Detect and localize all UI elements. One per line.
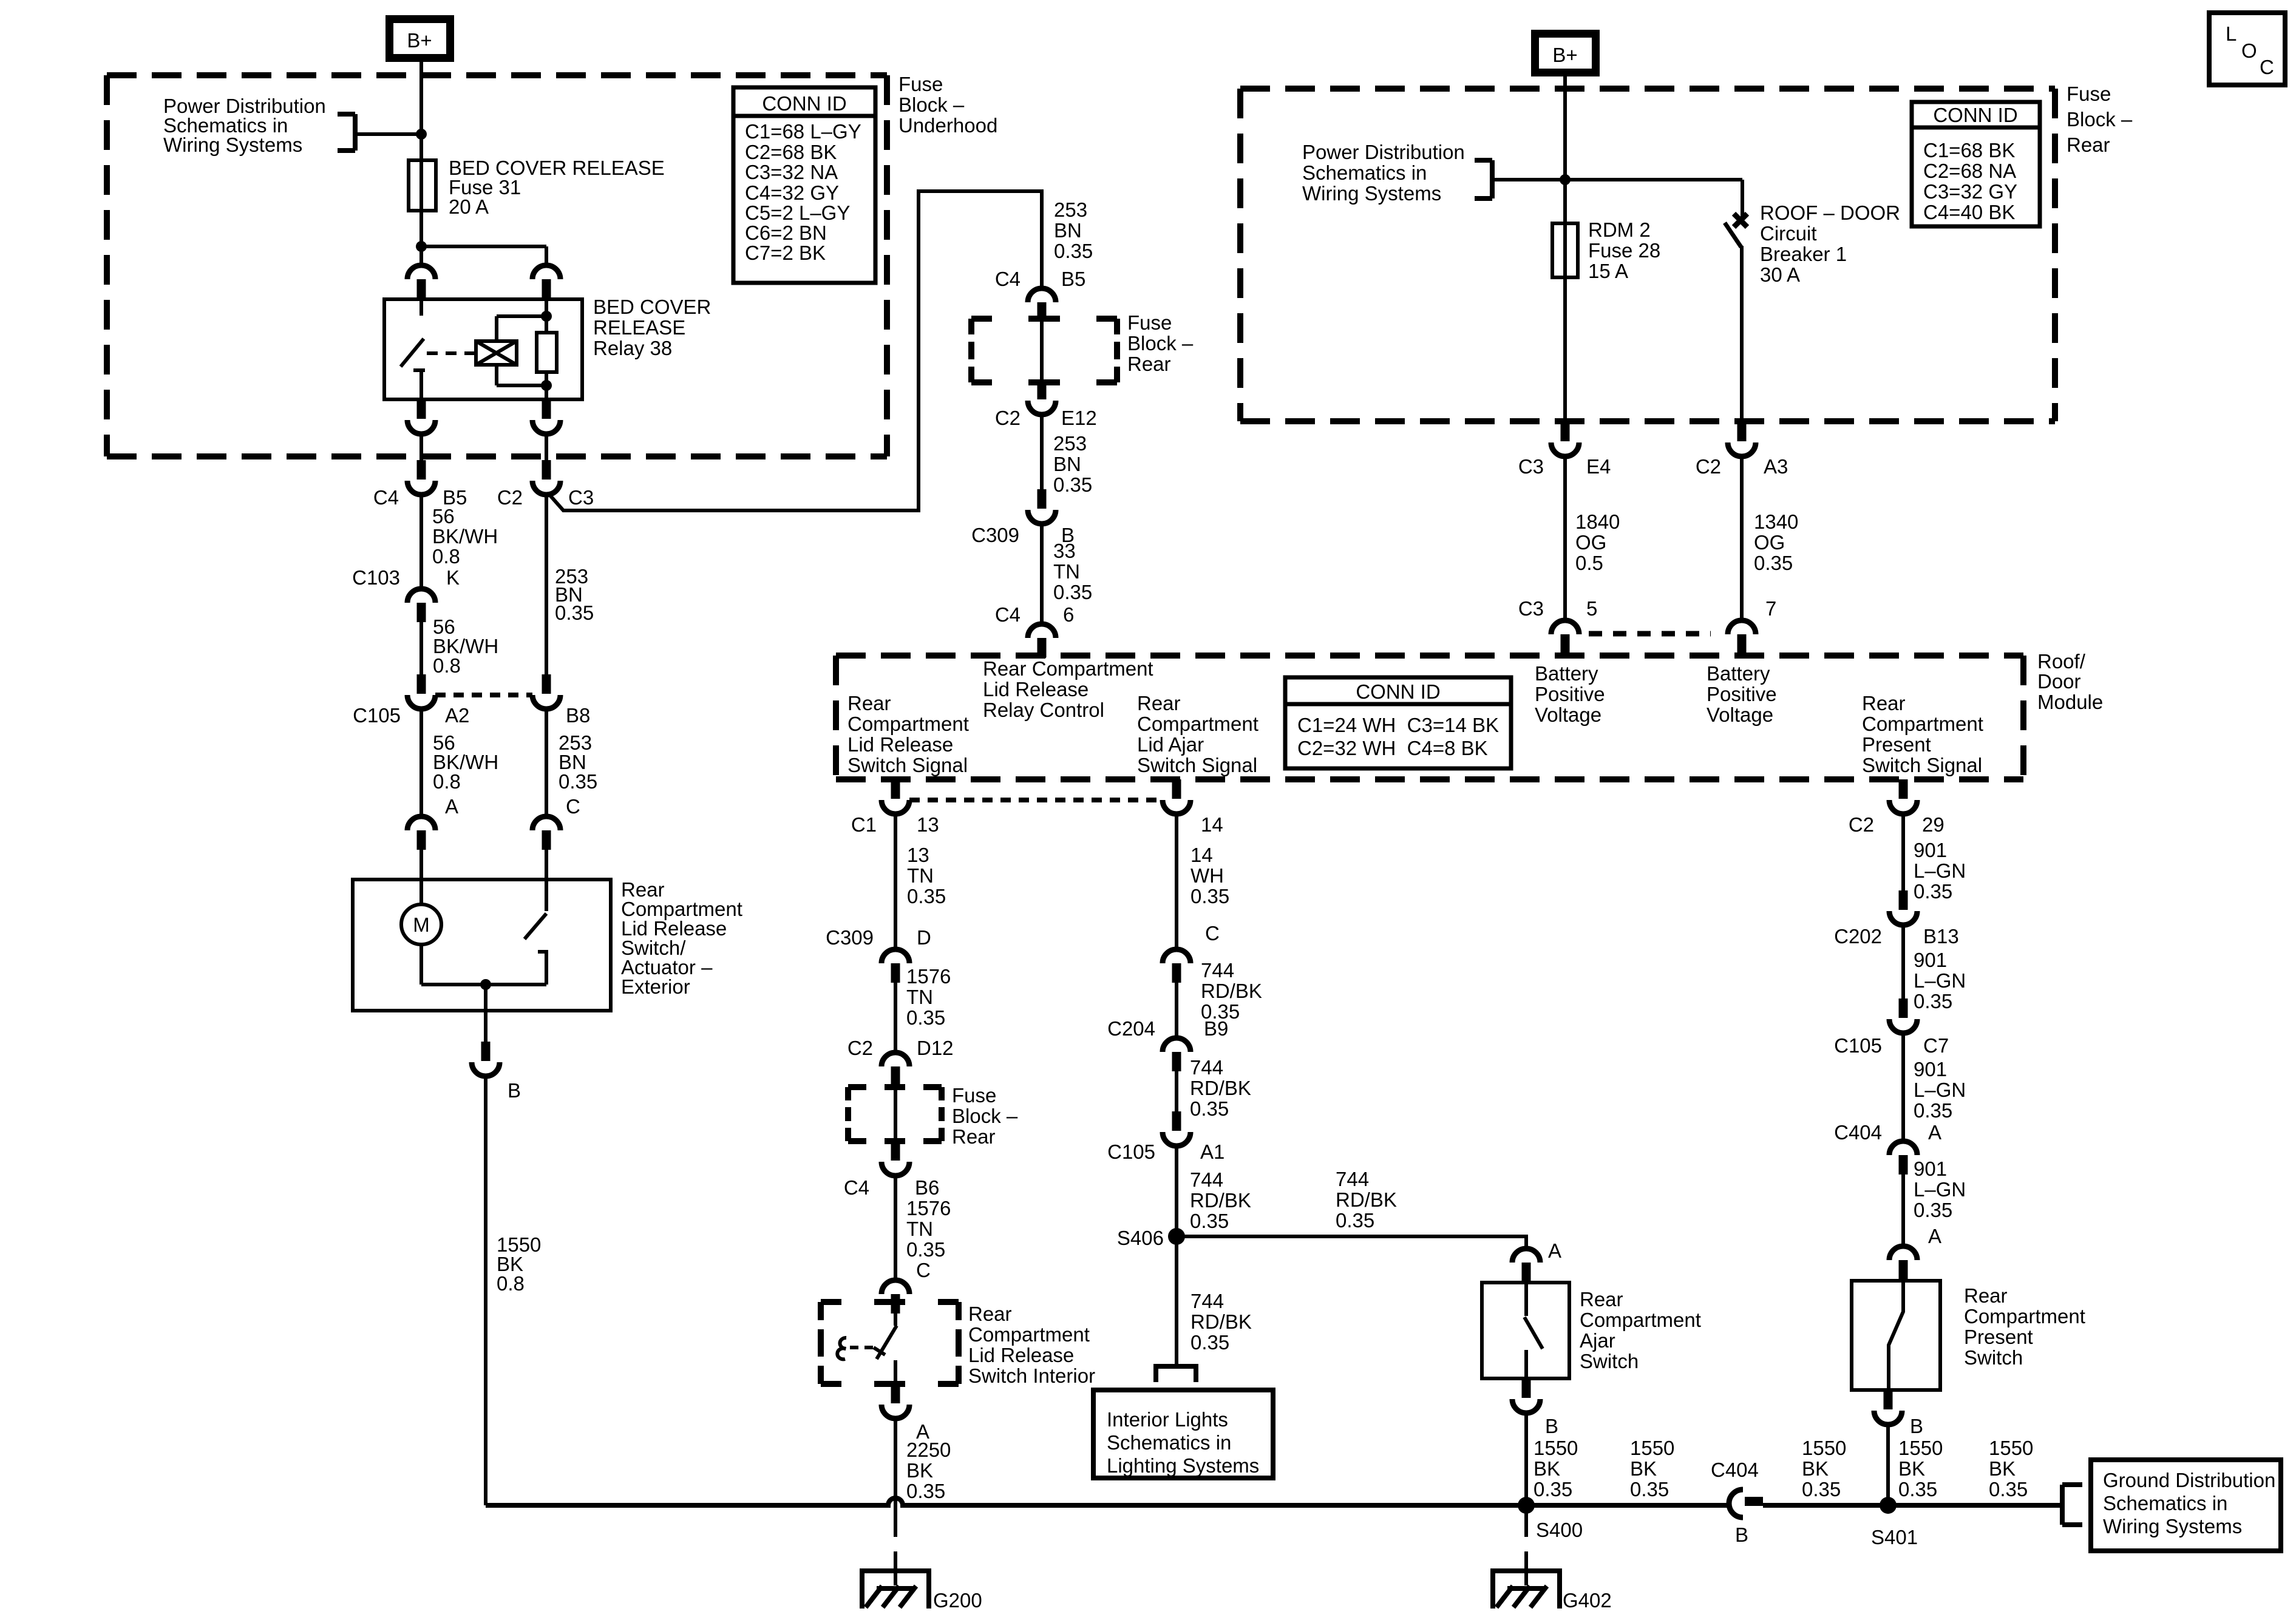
- fuse block rear dashed box (lower): [848, 1087, 942, 1141]
- svg-text:1550: 1550: [1533, 1437, 1578, 1459]
- wire junction to relay right leg: [421, 245, 546, 248]
- svg-text:BK: BK: [1898, 1457, 1925, 1480]
- svg-text:C2: C2: [1696, 455, 1721, 478]
- svg-text:B8: B8: [566, 704, 590, 727]
- svg-text:1550: 1550: [1630, 1437, 1674, 1459]
- connector C4 pin B5: [407, 460, 435, 495]
- svg-text:CONN ID: CONN ID: [1933, 104, 2017, 126]
- connector interior switch pin C: [881, 1280, 909, 1314]
- svg-text:Battery: Battery: [1707, 662, 1770, 685]
- svg-text:1550: 1550: [1898, 1437, 1943, 1459]
- svg-text:Battery: Battery: [1535, 662, 1598, 685]
- motor M circle: [419, 880, 423, 904]
- wire 1550 BK 0.8 to ground bus: [484, 1076, 487, 1505]
- connector C204 pin B9: [1163, 1038, 1190, 1071]
- svg-text:1576: 1576: [906, 965, 951, 988]
- connector C105 pin A2: [407, 674, 435, 709]
- connector C404 pin B (inline on bus): [1729, 1490, 1763, 1517]
- svg-text:A: A: [1548, 1239, 1561, 1262]
- svg-text:B5: B5: [1061, 268, 1085, 290]
- wire S406 down to interior lights: [1175, 1236, 1178, 1366]
- svg-text:0.35: 0.35: [906, 1238, 945, 1261]
- wire ajar switch to S400: [1524, 1413, 1528, 1505]
- svg-text:Circuit: Circuit: [1760, 222, 1817, 245]
- svg-text:B13: B13: [1923, 925, 1959, 947]
- svg-text:WH: WH: [1190, 864, 1224, 887]
- svg-text:0.35: 0.35: [1914, 990, 1952, 1012]
- svg-text:B9: B9: [1204, 1017, 1228, 1040]
- svg-text:BN: BN: [1053, 453, 1081, 475]
- svg-text:Positive: Positive: [1707, 683, 1777, 705]
- svg-text:Rear: Rear: [1862, 692, 1906, 714]
- svg-text:BN: BN: [1054, 219, 1082, 242]
- svg-text:TN: TN: [906, 1218, 933, 1240]
- svg-text:C4: C4: [844, 1176, 869, 1199]
- svg-text:0.5: 0.5: [1575, 552, 1603, 574]
- wire 33 TN to module: [1040, 524, 1044, 624]
- svg-text:E12: E12: [1061, 407, 1097, 429]
- wire 13 TN: [894, 814, 897, 949]
- svg-text:C3=32 NA: C3=32 NA: [745, 161, 838, 183]
- svg-text:Lid Release: Lid Release: [983, 678, 1089, 700]
- svg-text:Relay 38: Relay 38: [593, 337, 672, 359]
- svg-text:C1: C1: [851, 813, 877, 836]
- svg-text:ROOF – DOOR: ROOF – DOOR: [1760, 202, 1900, 224]
- svg-text:Voltage: Voltage: [1535, 703, 1601, 726]
- svg-text:6: 6: [1063, 603, 1074, 626]
- svg-text:B: B: [1910, 1415, 1923, 1437]
- svg-text:S401: S401: [1871, 1526, 1918, 1548]
- blade extension into module: [1737, 649, 1746, 658]
- svg-text:Lid Release: Lid Release: [968, 1344, 1074, 1366]
- connector C2 pin 7 (roof/door module): [1728, 620, 1756, 654]
- svg-text:TN: TN: [907, 864, 934, 887]
- svg-text:744: 744: [1336, 1168, 1369, 1190]
- wire inside fuse block rear lower: [894, 1086, 897, 1141]
- connector ajar switch pin B: [1512, 1378, 1540, 1413]
- svg-text:0.35: 0.35: [1914, 1199, 1952, 1221]
- svg-text:RD/BK: RD/BK: [1190, 1310, 1252, 1333]
- rear compartment lid release switch interior dashed box: [821, 1302, 959, 1384]
- actuator internal wires: [419, 944, 423, 985]
- connector actuator pin C: [532, 816, 560, 850]
- ground distribution schematics box: [2091, 1460, 2281, 1551]
- node relay coil top junction: [541, 311, 552, 322]
- svg-text:A3: A3: [1764, 455, 1788, 478]
- svg-text:C3: C3: [1518, 455, 1544, 478]
- svg-text:A1: A1: [1200, 1141, 1224, 1163]
- connector C309 pin D: [881, 949, 909, 983]
- svg-text:0.35: 0.35: [1989, 1478, 2028, 1500]
- svg-text:0.35: 0.35: [907, 885, 946, 907]
- svg-text:Schematics in: Schematics in: [2103, 1492, 2227, 1514]
- svg-text:29: 29: [1922, 813, 1944, 836]
- svg-text:901: 901: [1914, 949, 1947, 971]
- CONN ID table (fuse block rear): [1912, 102, 2040, 226]
- svg-text:Schematics in: Schematics in: [1302, 161, 1427, 184]
- svg-text:744: 744: [1190, 1168, 1223, 1191]
- svg-text:G402: G402: [1563, 1589, 1612, 1612]
- svg-text:Fuse: Fuse: [1127, 311, 1172, 334]
- interior lights schematics box: [1093, 1390, 1273, 1478]
- svg-text:744: 744: [1201, 959, 1234, 981]
- svg-text:C6=2 BN: C6=2 BN: [745, 222, 827, 244]
- connector relay pin 2 (right): [532, 265, 560, 299]
- fuse block underhood dashed boundary: [107, 75, 887, 456]
- svg-text:Module: Module: [2037, 691, 2103, 713]
- svg-text:5: 5: [1586, 597, 1597, 620]
- svg-text:Rear: Rear: [2067, 134, 2110, 156]
- connector C2 pin 29: [1889, 779, 1917, 814]
- svg-text:0.35: 0.35: [1190, 1210, 1229, 1232]
- ground G402: [1493, 1551, 1560, 1609]
- svg-text:S406: S406: [1117, 1227, 1164, 1249]
- svg-text:BK: BK: [1533, 1457, 1560, 1480]
- svg-text:Rear: Rear: [952, 1125, 996, 1148]
- svg-text:0.35: 0.35: [1190, 885, 1229, 907]
- interior switch plunger symbol: [837, 1338, 846, 1359]
- svg-text:901: 901: [1914, 1158, 1947, 1180]
- svg-text:B: B: [1545, 1415, 1558, 1437]
- svg-text:Fuse 28: Fuse 28: [1588, 239, 1660, 262]
- svg-text:A: A: [1928, 1121, 1941, 1144]
- svg-text:13: 13: [907, 844, 929, 866]
- svg-text:13: 13: [917, 813, 939, 836]
- svg-text:30 A: 30 A: [1760, 263, 1800, 286]
- rear compartment lid release switch/actuator box: [353, 880, 611, 1011]
- svg-text:C105: C105: [1834, 1034, 1882, 1057]
- svg-text:C4=32 GY: C4=32 GY: [745, 181, 839, 204]
- svg-text:0.8: 0.8: [497, 1272, 525, 1295]
- roof/door module dashed boundary: [836, 656, 2023, 779]
- svg-text:Voltage: Voltage: [1707, 703, 1773, 726]
- svg-text:Switch: Switch: [1964, 1346, 2023, 1369]
- svg-text:0.35: 0.35: [906, 1480, 945, 1502]
- connector C2 pin A3: [1728, 422, 1756, 456]
- svg-text:1840: 1840: [1575, 510, 1620, 533]
- connector C4 pin B5 (fuse block rear): [1028, 288, 1056, 322]
- svg-text:C1=68 BK: C1=68 BK: [1923, 139, 2015, 161]
- svg-text:0.35: 0.35: [555, 602, 594, 624]
- connector actuator pin A: [407, 816, 435, 850]
- svg-text:C4: C4: [995, 268, 1021, 290]
- svg-text:253: 253: [1053, 432, 1087, 455]
- connector C2 pin E12: [1028, 380, 1056, 415]
- svg-text:Switch Interior: Switch Interior: [968, 1364, 1095, 1387]
- svg-text:C: C: [916, 1259, 931, 1281]
- svg-text:Block –: Block –: [952, 1105, 1018, 1127]
- connector relay pin 3 (right bottom): [532, 399, 560, 434]
- wire 901 L-GN (2): [1901, 925, 1905, 998]
- svg-text:C2=68 BK: C2=68 BK: [745, 141, 837, 163]
- fuse F31 BED COVER RELEASE 20A: [409, 160, 436, 211]
- LOC legend box: [2209, 13, 2285, 85]
- svg-text:C4: C4: [373, 486, 399, 509]
- svg-text:Fuse: Fuse: [898, 73, 943, 95]
- svg-text:0.35: 0.35: [1336, 1209, 1374, 1232]
- wire 901 L-GN (3): [1901, 1033, 1905, 1141]
- svg-text:Ajar: Ajar: [1580, 1329, 1615, 1352]
- connector interior switch pin A: [881, 1384, 909, 1419]
- svg-text:1340: 1340: [1754, 510, 1798, 533]
- svg-text:B6: B6: [915, 1176, 939, 1199]
- svg-text:C2=68 NA: C2=68 NA: [1923, 160, 2016, 182]
- svg-text:0.8: 0.8: [433, 654, 461, 677]
- svg-text:Switch Signal: Switch Signal: [1862, 754, 1982, 776]
- svg-text:Wiring Systems: Wiring Systems: [1302, 182, 1441, 205]
- bracket to ground distribution note: [2062, 1485, 2082, 1525]
- svg-text:Lid Release: Lid Release: [847, 733, 953, 756]
- wire 1576 TN upper: [894, 983, 897, 1053]
- svg-text:TN: TN: [1053, 560, 1080, 583]
- svg-text:OG: OG: [1575, 531, 1606, 554]
- svg-text:Breaker 1: Breaker 1: [1760, 243, 1847, 265]
- wire 1340 OG: [1740, 456, 1744, 620]
- svg-text:Lighting Systems: Lighting Systems: [1107, 1454, 1259, 1477]
- svg-text:Compartment: Compartment: [1580, 1309, 1701, 1331]
- svg-text:Ground Distribution: Ground Distribution: [2103, 1469, 2275, 1491]
- wire 744 RD/BK (2): [1175, 1071, 1178, 1111]
- svg-text:2250: 2250: [906, 1439, 951, 1461]
- svg-text:Roof/: Roof/: [2037, 650, 2086, 673]
- svg-text:Present: Present: [1964, 1326, 2033, 1348]
- connector C202 pin B13: [1889, 890, 1917, 925]
- svg-text:C2: C2: [847, 1037, 873, 1059]
- svg-text:C7: C7: [1923, 1034, 1949, 1057]
- CONN ID table (fuse block underhood): [733, 87, 875, 283]
- svg-text:1576: 1576: [906, 1197, 951, 1219]
- ground bus wire 1550 BK with crossover hop: [486, 1498, 1727, 1505]
- wire 1576 TN lower: [894, 1176, 897, 1280]
- svg-text:0.35: 0.35: [1533, 1478, 1572, 1500]
- interior switch contacts: [894, 1314, 897, 1326]
- svg-text:Compartment: Compartment: [1862, 713, 1983, 735]
- svg-text:Compartment: Compartment: [847, 713, 969, 735]
- svg-text:Fuse: Fuse: [2067, 83, 2111, 105]
- node actuator output junction: [480, 979, 491, 990]
- svg-text:RELEASE: RELEASE: [593, 316, 685, 339]
- svg-text:Rear: Rear: [847, 692, 891, 714]
- connector C105 pin C7: [1889, 998, 1917, 1033]
- svg-text:901: 901: [1914, 1058, 1947, 1080]
- svg-text:C2: C2: [1849, 813, 1874, 836]
- svg-text:0.35: 0.35: [1898, 1478, 1937, 1500]
- blade extension into module: [1038, 653, 1046, 658]
- svg-text:A2: A2: [445, 704, 469, 727]
- splice S400: [1518, 1497, 1535, 1514]
- svg-text:C: C: [566, 795, 580, 818]
- rear compartment ajar switch box: [1482, 1283, 1569, 1378]
- svg-text:0.35: 0.35: [1914, 880, 1952, 903]
- rear compartment present switch box: [1852, 1281, 1940, 1390]
- blade extension into module: [1561, 649, 1569, 658]
- connector actuator pin B: [472, 1042, 500, 1076]
- wires into actuator box: [419, 850, 423, 880]
- svg-text:C2=32 WH C4=8 BK: C2=32 WH C4=8 BK: [1297, 737, 1488, 759]
- svg-text:0.35: 0.35: [1190, 1097, 1229, 1120]
- svg-text:RD/BK: RD/BK: [1336, 1188, 1397, 1211]
- svg-text:Fuse: Fuse: [952, 1084, 996, 1107]
- svg-text:Positive: Positive: [1535, 683, 1605, 705]
- svg-text:Switch Signal: Switch Signal: [1137, 754, 1257, 776]
- wire relay to C4/C2 connectors: [419, 434, 423, 460]
- svg-text:B+: B+: [1552, 44, 1577, 66]
- fuse block rear dashed box (upper): [971, 319, 1117, 382]
- svg-text:Interior Lights: Interior Lights: [1107, 1408, 1228, 1431]
- svg-text:Compartment: Compartment: [968, 1323, 1090, 1346]
- svg-text:Present: Present: [1862, 733, 1931, 756]
- svg-text:744: 744: [1190, 1056, 1223, 1079]
- svg-text:BK/WH: BK/WH: [432, 525, 498, 547]
- wire S400 to G402: [1524, 1505, 1528, 1537]
- svg-text:7: 7: [1765, 597, 1776, 620]
- svg-text:C4=40 BK: C4=40 BK: [1923, 201, 2015, 223]
- svg-text:C105: C105: [353, 704, 401, 727]
- svg-text:0.35: 0.35: [1630, 1478, 1669, 1500]
- wire B+ to fuse 31: [419, 62, 423, 265]
- node junction at B+ feed (left): [416, 129, 427, 140]
- svg-text:G200: G200: [933, 1589, 982, 1612]
- actuator switch contacts: [545, 880, 548, 911]
- connector C4 pin B6: [881, 1141, 909, 1176]
- svg-text:C105: C105: [1107, 1141, 1155, 1163]
- relay coil parallel branch wires: [497, 314, 546, 318]
- svg-text:Door: Door: [2037, 670, 2081, 693]
- svg-text:BK: BK: [1989, 1457, 2016, 1480]
- connector relay pin 1 (left): [407, 265, 435, 299]
- wire junction to circuit breaker: [1565, 178, 1742, 181]
- svg-text:RD/BK: RD/BK: [1190, 1077, 1251, 1099]
- svg-text:C204: C204: [1107, 1017, 1155, 1040]
- svg-text:0.35: 0.35: [1914, 1099, 1952, 1122]
- svg-text:L: L: [2226, 22, 2237, 45]
- svg-text:B+: B+: [407, 29, 432, 52]
- wire inside fuse block rear: [1040, 319, 1044, 380]
- svg-text:C404: C404: [1834, 1121, 1882, 1144]
- svg-text:S400: S400: [1536, 1519, 1583, 1541]
- CONN ID table (roof/door module): [1285, 677, 1511, 768]
- svg-text:C2: C2: [497, 486, 523, 509]
- connector C103 pin K: [407, 589, 435, 622]
- svg-text:Compartment: Compartment: [1137, 713, 1258, 735]
- wires C105 to actuator connectors: [419, 709, 423, 816]
- node relay coil bottom junction: [541, 380, 552, 391]
- svg-text:Schematics in: Schematics in: [1107, 1431, 1231, 1454]
- relay K38 BED COVER RELEASE Relay 38 box: [384, 299, 582, 399]
- svg-text:BK: BK: [1802, 1457, 1829, 1480]
- svg-text:744: 744: [1190, 1290, 1224, 1312]
- svg-text:CONN ID: CONN ID: [1356, 680, 1440, 703]
- connector C4 pin 6 (roof/door module): [1028, 624, 1056, 657]
- svg-text:33: 33: [1053, 540, 1076, 562]
- svg-text:Underhood: Underhood: [898, 114, 997, 137]
- svg-text:C309: C309: [826, 926, 874, 949]
- svg-text:Rear Compartment: Rear Compartment: [983, 657, 1153, 680]
- svg-text:TN: TN: [906, 986, 933, 1008]
- power symbol B+ (left): [390, 19, 450, 58]
- bracket to power distribution note (right): [1475, 160, 1492, 198]
- svg-text:C5=2 L–GY: C5=2 L–GY: [745, 202, 850, 224]
- wire 901 L-GN (1): [1901, 814, 1905, 890]
- wire 1840 OG: [1563, 456, 1567, 620]
- svg-text:14: 14: [1201, 813, 1223, 836]
- connector C105 pin B8: [532, 674, 560, 709]
- svg-text:C202: C202: [1834, 925, 1882, 947]
- svg-text:0.8: 0.8: [432, 545, 460, 568]
- svg-text:BK: BK: [1630, 1457, 1657, 1480]
- relay resistor: [537, 333, 557, 372]
- svg-text:C: C: [1205, 922, 1220, 944]
- svg-text:C1=68 L–GY: C1=68 L–GY: [745, 120, 861, 143]
- wire relay right leg through resistor: [545, 299, 548, 333]
- svg-text:C103: C103: [352, 566, 400, 589]
- svg-text:A: A: [445, 795, 458, 818]
- relay switch lower contact: [413, 368, 425, 372]
- relay coil (X box): [476, 341, 517, 365]
- svg-text:C: C: [2260, 56, 2274, 78]
- present switch contacts: [1889, 1281, 1903, 1390]
- relay switch arm: [401, 339, 424, 367]
- svg-text:0.35: 0.35: [559, 770, 597, 793]
- svg-text:RD/BK: RD/BK: [1201, 980, 1262, 1002]
- svg-text:C4: C4: [995, 603, 1021, 626]
- svg-text:Switch: Switch: [1580, 1350, 1639, 1372]
- svg-text:0.35: 0.35: [1802, 1478, 1841, 1500]
- relay coil control dashed link: [427, 351, 476, 355]
- bracket to power distribution note (left): [338, 114, 355, 151]
- svg-text:20 A: 20 A: [449, 195, 489, 218]
- wire B+ to RDM2 fuse: [1563, 75, 1567, 422]
- wire 14 WH: [1175, 814, 1178, 949]
- svg-text:CONN ID: CONN ID: [762, 92, 846, 115]
- connector relay pin 4 (left bottom): [407, 399, 435, 434]
- splice S401: [1880, 1497, 1897, 1514]
- svg-text:Relay Control: Relay Control: [983, 699, 1104, 721]
- svg-text:C3: C3: [1518, 597, 1544, 620]
- svg-text:C3=32 GY: C3=32 GY: [1923, 180, 2017, 203]
- svg-text:BED COVER: BED COVER: [593, 296, 711, 318]
- circuit breaker CB1 ROOF-DOOR 30A: [1725, 180, 1747, 422]
- wire actuator to pin B: [484, 1011, 487, 1042]
- connector present switch pin A: [1889, 1246, 1917, 1280]
- svg-text:14: 14: [1190, 844, 1213, 866]
- wire 744 RD/BK (3) to S406: [1175, 1146, 1178, 1236]
- dotted link C1 connector halves: [909, 798, 1163, 802]
- connector ajar switch pin A: [1512, 1249, 1540, 1282]
- connector C3 pin E4: [1551, 422, 1579, 456]
- dotted link module battery connectors: [1589, 631, 1711, 637]
- connector C2 pin C3: [532, 460, 560, 495]
- connector C1 pin 14: [1163, 779, 1190, 814]
- svg-text:K: K: [446, 566, 460, 589]
- dotted link C105 connectors: [435, 693, 532, 697]
- splice S406: [1168, 1228, 1185, 1245]
- svg-text:Switch Signal: Switch Signal: [847, 754, 968, 776]
- svg-text:C3: C3: [568, 486, 594, 509]
- svg-text:BK: BK: [906, 1459, 933, 1482]
- svg-text:Wiring Systems: Wiring Systems: [2103, 1515, 2242, 1537]
- wire circuit 253 from C3 to fuse block rear: [549, 191, 1042, 510]
- svg-text:0.35: 0.35: [906, 1006, 945, 1029]
- wire 744 RD/BK (1): [1175, 983, 1178, 1038]
- svg-text:Block –: Block –: [1127, 332, 1194, 354]
- svg-text:Block –: Block –: [898, 93, 965, 116]
- svg-text:15 A: 15 A: [1588, 260, 1628, 282]
- svg-text:0.35: 0.35: [1053, 473, 1092, 496]
- svg-text:D12: D12: [917, 1037, 954, 1059]
- svg-text:OG: OG: [1754, 531, 1785, 554]
- svg-text:Power Distribution: Power Distribution: [1302, 141, 1465, 163]
